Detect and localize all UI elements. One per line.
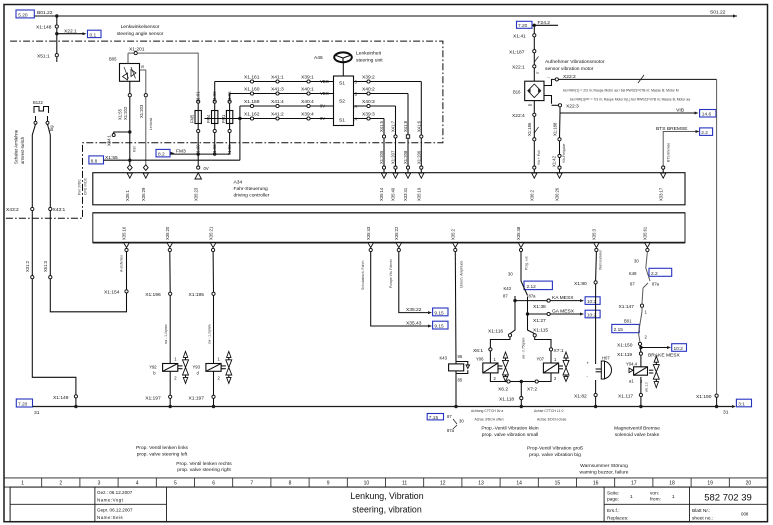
controller A34 lower box [93, 213, 685, 243]
wire X1:203 to pin X35:29 [146, 97, 153, 166]
svg-text:X1:150: X1:150 [617, 342, 633, 348]
relay contact K43 30/87/87a [503, 252, 552, 314]
valve Y93 proportional steering [189, 252, 232, 409]
svg-text:X1.118: X1.118 [499, 397, 514, 403]
svg-text:13: 13 [478, 481, 484, 487]
cab enclosure dash-dot boundary [4, 41, 443, 218]
svg-text:prop. valve steering left: prop. valve steering left [137, 451, 188, 457]
svg-text:1: 1 [630, 494, 633, 500]
node X1:115 [528, 314, 549, 337]
svg-text:6: 6 [212, 481, 215, 487]
svg-text:VDC: VDC [320, 91, 329, 96]
svg-text:7.20: 7.20 [518, 23, 528, 29]
svg-text:2.12: 2.12 [527, 284, 537, 290]
svg-text:Seite:: Seite: [607, 491, 619, 497]
pin X35:21 A34 bottom [208, 226, 216, 252]
svg-text:X1:203: X1:203 [139, 104, 144, 118]
svg-text:X40:4: X40:4 [301, 99, 314, 105]
svg-text:page:: page: [607, 498, 619, 503]
svg-text:B05: B05 [109, 57, 117, 62]
svg-text:ws - 0.75qmm: ws - 0.75qmm [522, 338, 526, 359]
node X51:1 [37, 53, 58, 62]
svg-text:CPU 0VDC: CPU 0VDC [84, 177, 88, 195]
svg-text:X1:38: X1:38 [533, 304, 546, 310]
wire pin X35:43 to sheet ref 9.15 [361, 252, 448, 330]
svg-text:X1.159: X1.159 [244, 99, 260, 105]
pin X35:3 A34 bottom [592, 228, 600, 251]
svg-text:Vib-Freigabe: Vib-Freigabe [562, 144, 566, 163]
svg-text:X1:115: X1:115 [533, 328, 548, 334]
svg-text:Blatt Nr.:: Blatt Nr.: [692, 508, 710, 514]
svg-text:aa: aa [528, 103, 532, 107]
wire B05 right pin to X1:203 [139, 70, 147, 118]
svg-text:12: 12 [440, 481, 446, 487]
svg-text:driving controller: driving controller [234, 193, 270, 199]
svg-text:4: 4 [136, 481, 139, 487]
svg-text:X35:1: X35:1 [125, 189, 130, 201]
svg-text:582 702 39: 582 702 39 [704, 492, 752, 503]
svg-text:von:: von: [650, 492, 659, 497]
svg-text:X1:147: X1:147 [619, 304, 635, 310]
pin X36:2 A34 top [530, 173, 538, 201]
svg-text:...: ... [547, 74, 551, 79]
relay contact K48 [629, 252, 672, 288]
svg-text:X1:190: X1:190 [696, 394, 712, 400]
pin labels Pwr/CPU 0V [78, 177, 88, 195]
svg-text:sw - 1.0qmm: sw - 1.0qmm [164, 324, 168, 344]
svg-text:X41:7: X41:7 [391, 120, 396, 132]
valve Y04.4 solenoid brake [618, 355, 659, 408]
svg-text:Replaces:: Replaces: [607, 516, 628, 522]
net row X1.162 steering signal [204, 111, 333, 121]
wire X31:2 down to X1:149 [32, 279, 77, 407]
svg-text:S2: S2 [339, 99, 345, 105]
wire B05 bottom pin X1:202 [118, 81, 132, 120]
svg-text:prop. valve vibration small: prop. valve vibration small [482, 432, 539, 438]
svg-text:X35:14: X35:14 [379, 187, 384, 201]
svg-text:X35:20: X35:20 [165, 226, 170, 240]
svg-text:X1:186: X1:186 [527, 122, 532, 136]
net GA MESX to sheet ref 10.2 [526, 308, 600, 323]
svg-text:X36:2: X36:2 [530, 189, 535, 201]
svg-text:S1: S1 [339, 118, 345, 124]
title block table [10, 487, 767, 522]
controller A34 upper box [93, 173, 685, 213]
svg-text:X35:43: X35:43 [366, 226, 371, 240]
pin X35:2 A34 bottom [451, 228, 459, 251]
svg-text:VIB: VIB [676, 108, 684, 114]
svg-text:prop. valve steering right: prop. valve steering right [177, 467, 231, 473]
wire B122 right to X43:1 [48, 124, 66, 213]
node X22:2 and net to long vertical [544, 74, 717, 86]
svg-text:2.2: 2.2 [651, 271, 658, 277]
svg-text:10:2: 10:2 [674, 346, 684, 352]
svg-text:B01: B01 [624, 319, 632, 324]
pin X35:23 A34 top [193, 173, 201, 201]
svg-text:85: 85 [458, 378, 463, 383]
svg-text:X1:116: X1:116 [488, 329, 503, 335]
svg-text:X1:42: X1:42 [552, 155, 557, 167]
caption solenoid valve brake [614, 426, 660, 439]
annotation cable notes B16 [563, 89, 690, 102]
node X41:8 / X1:208 [403, 120, 410, 172]
svg-text:Achse 3/DCH close: Achse 3/DCH close [537, 418, 567, 422]
svg-text:7: 7 [250, 481, 253, 487]
svg-text:X1:148: X1:148 [36, 25, 52, 31]
node X41:6 / X1:206 [416, 120, 423, 172]
node terminal X35:29 [143, 165, 148, 171]
svg-text:Prop-Ventil Vibration groß: Prop-Ventil Vibration groß [527, 446, 583, 452]
svg-text:X40:2: X40:2 [362, 86, 375, 92]
svg-text:18: 18 [669, 481, 675, 487]
svg-text:2.2: 2.2 [701, 130, 708, 136]
wire F24.2 down to B16 [509, 25, 539, 81]
svg-text:X1:01: X1:01 [196, 91, 201, 103]
svg-text:Achtung CTTCH 5v a: Achtung CTTCH 5v a [471, 409, 503, 413]
svg-text:Przg. out: Przg. out [525, 256, 529, 270]
svg-text:9.15: 9.15 [434, 310, 444, 316]
svg-text:Gepr. 06.12.2007: Gepr. 06.12.2007 [97, 508, 133, 513]
svg-text:Ers.f.:: Ers.f.: [607, 508, 620, 514]
caption prop valve vibration small [481, 426, 539, 439]
svg-text:X35:21: X35:21 [208, 226, 213, 240]
svg-text:30: 30 [459, 419, 464, 424]
caption sensor vibration motor [545, 59, 605, 72]
svg-text:30: 30 [508, 272, 513, 277]
svg-text:ws 1.0: ws 1.0 [645, 382, 649, 392]
sheet ref 5.20 [16, 10, 34, 18]
svg-text:Y06: Y06 [476, 356, 484, 361]
svg-text:Prop. Ventil lenken rechts: Prop. Ventil lenken rechts [176, 461, 232, 467]
svg-text:10: 10 [364, 481, 370, 487]
svg-text:X35:22: X35:22 [406, 307, 422, 313]
svg-text:87a: 87a [652, 281, 660, 286]
svg-text:Pwr 0VDC: Pwr 0VDC [78, 179, 82, 195]
svg-text:X1.161: X1.161 [244, 74, 260, 80]
node terminal X35:1 [127, 160, 132, 170]
svg-text:Lenkeinheit: Lenkeinheit [356, 51, 382, 57]
node junction X34:1 branch [107, 97, 137, 160]
svg-text:X1:41: X1:41 [513, 34, 526, 40]
svg-text:X6.2: X6.2 [498, 387, 508, 393]
svg-text:7.15: 7.15 [429, 415, 439, 421]
net row X39:3 to X41:5 [354, 111, 385, 135]
fuse FM5 [190, 91, 202, 156]
svg-text:8: 8 [289, 481, 292, 487]
pin X33:41 A34 top [403, 173, 411, 201]
svg-text:X41:3: X41:3 [271, 86, 284, 92]
net FM3 bus from sheet ref 8.2 [156, 148, 230, 157]
svg-text:X41:6: X41:6 [416, 120, 421, 132]
svg-text:warning buzzer, failure: warning buzzer, failure [580, 470, 629, 476]
svg-text:14.6: 14.6 [702, 112, 712, 118]
wire riser FM4 to row X1.161 [214, 82, 216, 101]
svg-text:X1:208: X1:208 [403, 150, 408, 164]
svg-text:X7:2: X7:2 [527, 387, 537, 393]
pin X35:48 A34 bottom [516, 226, 524, 252]
svg-text:X1:196: X1:196 [145, 292, 161, 298]
wire X22:3 branch down X1:188 / X1:42 [552, 113, 567, 173]
annotation achse notes [471, 409, 567, 422]
svg-text:BTS BREMSE: BTS BREMSE [656, 126, 688, 132]
svg-text:BTS Bremse: BTS Bremse [667, 143, 671, 162]
svg-text:X6:1: X6:1 [473, 348, 483, 354]
svg-text:X35:2: X35:2 [451, 228, 456, 240]
sensor B05 steering angle [109, 57, 145, 82]
svg-text:B: B [355, 92, 358, 97]
svg-text:X1:207: X1:207 [391, 150, 396, 164]
svg-text:sheet no.:: sheet no.: [692, 516, 713, 522]
net row X1.161 steering signal [215, 74, 334, 84]
svg-text:X1:201: X1:201 [129, 47, 145, 53]
svg-text:X1:188: X1:188 [553, 122, 558, 136]
net row X1.160 steering signal [230, 86, 334, 96]
svg-text:X1.162: X1.162 [244, 111, 260, 117]
svg-text:Achse CTTCH L1 0: Achse CTTCH L1 0 [534, 409, 564, 413]
caption prop valve vibration big [527, 446, 583, 459]
svg-text:X39:4: X39:4 [301, 111, 314, 117]
svg-text:X41:1: X41:1 [271, 74, 284, 80]
sheet ref 7.20 with net F24.2 [517, 20, 559, 29]
svg-text:7.20: 7.20 [18, 402, 28, 408]
node X1:118 to ground bus [499, 380, 523, 408]
svg-text:X1.117: X1.117 [618, 394, 633, 400]
wire X51:3 to X1:154 branch [50, 279, 126, 312]
wire pin X35:16 to X1:154 [104, 252, 128, 296]
svg-text:87: 87 [630, 281, 635, 286]
node X41:7 / X1:207 [391, 120, 398, 172]
node X1:116 [488, 301, 515, 337]
svg-text:14: 14 [516, 481, 522, 487]
svg-text:X35:16: X35:16 [122, 226, 127, 240]
sensor B16 vibration motor [513, 81, 544, 100]
valve Y06 prop vibration small [473, 337, 521, 393]
svg-text:0V: 0V [320, 104, 325, 109]
net KA MESX to sheet ref 10.2 [513, 295, 600, 310]
switch block S1/S2/S1 of A46 [334, 76, 358, 126]
svg-text:X1:154: X1:154 [104, 290, 120, 296]
svg-text:S: S [140, 65, 145, 68]
pin X35:19 A34 top [417, 173, 425, 201]
svg-text:X1:27: X1:27 [533, 318, 546, 324]
svg-text:Prop.-Ventil Vibration klein: Prop.-Ventil Vibration klein [481, 426, 539, 432]
pin X35:22 A34 bottom [394, 226, 402, 252]
svg-text:X34:1: X34:1 [107, 134, 112, 146]
svg-text:Aufnehmer Vibrationsmotor: Aufnehmer Vibrationsmotor [545, 59, 605, 65]
svg-text:BRAKE MESX: BRAKE MESX [648, 353, 681, 359]
svg-text:from:: from: [650, 497, 661, 503]
svg-text:X1:206: X1:206 [416, 150, 421, 164]
svg-text:Lenkrad: Lenkrad [149, 118, 153, 130]
svg-text:17: 17 [631, 481, 637, 487]
caption warning buzzer [580, 463, 629, 476]
svg-text:X35:61: X35:61 [643, 226, 648, 240]
svg-text:X39:1: X39:1 [301, 74, 314, 80]
svg-text:Lenkung, Vibration: Lenkung, Vibration [350, 491, 423, 501]
svg-text:11: 11 [402, 481, 407, 487]
buzzer H07 [574, 249, 612, 408]
svg-text:B122: B122 [33, 100, 43, 105]
svg-text:S1: S1 [339, 81, 345, 87]
svg-text:8.8: 8.8 [91, 158, 98, 164]
ground bus net 31 [16, 399, 751, 416]
svg-text:X39:3: X39:3 [362, 111, 375, 117]
wire riser 0V to row X1.159 [239, 106, 241, 119]
svg-text:X43:2: X43:2 [6, 207, 19, 213]
net B01.22 / S01.22 top supply bus [34, 10, 737, 18]
wire X1:201 to fuse FM5 [137, 53, 198, 100]
svg-text:X33:41: X33:41 [403, 187, 408, 201]
svg-text:8.2: 8.2 [158, 152, 165, 158]
svg-text:9.15: 9.15 [434, 324, 444, 330]
svg-text:Prop. Ventil lenken links: Prop. Ventil lenken links [136, 445, 188, 451]
svg-text:Schalter Armlehne: Schalter Armlehne [14, 129, 19, 164]
svg-text:X35:40: X35:40 [391, 187, 396, 201]
svg-text:X43:1: X43:1 [53, 207, 66, 213]
node X1:148 [36, 14, 59, 55]
switch B122 armrest [14, 100, 55, 164]
svg-text:X36:26: X36:26 [555, 187, 560, 201]
column scale row 1-20 [4, 478, 768, 487]
svg-text:31: 31 [723, 410, 729, 416]
svg-text:X35:3: X35:3 [592, 228, 597, 240]
svg-text:K30: K30 [133, 146, 137, 152]
svg-text:bei RAV(1) = 2/3 m; Raupe Moto: bei RAV(1) = 2/3 m; Raupe Motor aa / bei… [563, 89, 679, 93]
wire B122 left to X43:2 [6, 124, 36, 213]
svg-text:2: 2 [59, 481, 62, 487]
svg-text:86: 86 [458, 354, 463, 359]
relay coil K43 [440, 252, 470, 409]
svg-text:87: 87 [503, 294, 508, 299]
svg-text:X31:2: X31:2 [25, 260, 30, 272]
wire pin X35:22 to sheet ref 9.15 [389, 252, 448, 317]
svg-text:Schubabsch. Fahrh.: Schubabsch. Fahrh. [361, 260, 365, 290]
node X1:147 [619, 288, 644, 310]
svg-text:K43: K43 [440, 356, 448, 361]
svg-text:Name:Vogt: Name:Vogt [97, 498, 124, 503]
pin X35:29 A34 top [141, 173, 149, 201]
svg-text:big: big [49, 125, 54, 131]
caption Lenkwinkelsensor [117, 24, 164, 37]
svg-text:X41:2: X41:2 [271, 111, 284, 117]
svg-text:Magnetventil Bremse: Magnetventil Bremse [614, 426, 660, 432]
svg-text:X51:1: X51:1 [37, 53, 50, 59]
pin X35:20 A34 bottom [165, 226, 173, 252]
svg-text:B01.22: B01.22 [37, 10, 53, 16]
legend relay contact with sheet ref 7.15 [427, 414, 464, 434]
svg-text:X1:149: X1:149 [53, 395, 69, 401]
svg-text:GA MESX: GA MESX [552, 308, 575, 314]
wire riser FM1 to row X1.160 [229, 94, 231, 101]
svg-text:Achse 3/DCH offen: Achse 3/DCH offen [475, 418, 504, 422]
svg-text:FM5: FM5 [190, 114, 195, 123]
net BRAKE MESX to sheet ref 10.2 [617, 344, 687, 359]
svg-text:Warnsummer Störung: Warnsummer Störung [580, 463, 628, 469]
pin X35:43 A34 bottom [366, 226, 374, 252]
svg-text:0V: 0V [204, 166, 209, 171]
svg-text:Umsch. Amplitude: Umsch. Amplitude [460, 261, 464, 288]
net X1:55 0V line from sheet ref 8.8 [89, 155, 240, 165]
svg-text:bei RW(1)PF = 7/3 m; Raupe Mot: bei RW(1)PF = 7/3 m; Raupe Motor b(L) be… [570, 98, 690, 102]
svg-text:Y04.4: Y04.4 [626, 362, 638, 367]
svg-text:5: 5 [174, 481, 177, 487]
svg-text:X33:17: X33:17 [658, 187, 663, 201]
svg-text:16: 16 [593, 481, 599, 487]
svg-text:S01.22: S01.22 [710, 10, 726, 16]
svg-text:Vib + Poti: Vib + Poti [537, 150, 541, 165]
svg-text:K48: K48 [629, 271, 637, 276]
svg-text:X1:80: X1:80 [574, 281, 587, 287]
svg-text:31: 31 [34, 410, 40, 416]
svg-text:X35:48: X35:48 [516, 226, 521, 240]
svg-text:iv: iv [537, 71, 540, 75]
net row X40:3 to X41:7 [354, 99, 396, 135]
fuse FM4 [206, 91, 218, 156]
svg-text:X40:1: X40:1 [301, 86, 314, 92]
svg-text:Y92: Y92 [149, 365, 157, 370]
svg-text:X1.160: X1.160 [244, 86, 260, 92]
svg-text:0V: 0V [320, 116, 325, 121]
svg-text:H07: H07 [602, 356, 610, 361]
svg-text:Fahr-Steuerung: Fahr-Steuerung [234, 186, 269, 192]
svg-text:solenoid valve brake: solenoid valve brake [615, 432, 660, 438]
svg-text:20: 20 [746, 481, 752, 487]
svg-text:steering, vibration: steering, vibration [352, 505, 422, 515]
svg-text:Y07: Y07 [537, 356, 545, 361]
svg-text:X1:197: X1:197 [145, 395, 161, 401]
svg-text:sw - 1.0qmm: sw - 1.0qmm [208, 324, 212, 344]
node X22:4 under B16 [512, 101, 541, 173]
net row X40:2 to X41:8 [354, 86, 409, 135]
svg-text:prop. valve vibration big: prop. valve vibration big [529, 452, 581, 458]
svg-text:steering unit: steering unit [356, 58, 383, 64]
svg-text:15: 15 [555, 481, 561, 487]
wire FM5 bottom to pin X35:23 with 0V node [197, 154, 209, 171]
pin X35:1 A34 top [125, 173, 133, 201]
svg-text:X22:4: X22:4 [512, 113, 525, 119]
node X22:3 and net VIB to sheet ref 14.6 [544, 96, 716, 118]
svg-text:X1:55: X1:55 [118, 108, 123, 120]
svg-text:A: A [355, 104, 358, 109]
svg-text:X35:22: X35:22 [394, 226, 399, 240]
svg-text:A: A [355, 117, 358, 122]
svg-text:A34: A34 [234, 180, 243, 186]
svg-text:3: 3 [98, 481, 101, 487]
pin X33:17 A34 top [658, 173, 666, 201]
valve Y07 prop vibration big [521, 337, 569, 393]
node X1:201 [128, 47, 145, 64]
svg-text:X35.43: X35.43 [406, 321, 422, 327]
svg-text:steering angle sensor: steering angle sensor [117, 31, 164, 37]
svg-text:X7:1: X7:1 [554, 348, 564, 354]
svg-text:87: 87 [447, 414, 452, 419]
svg-text:a1: a1 [629, 379, 634, 384]
wire 0V riser to row X1.162 [238, 117, 241, 160]
caption prop valve steering right [176, 461, 232, 473]
svg-text:K43: K43 [504, 286, 512, 291]
svg-text:X1:205: X1:205 [379, 150, 384, 164]
pin X35:40 A34 top [391, 173, 399, 201]
svg-text:A46: A46 [314, 55, 323, 61]
net BTS BREMSE to sheet ref 2.2 [656, 126, 713, 173]
svg-text:2.15: 2.15 [614, 327, 624, 333]
svg-text:1: 1 [672, 494, 675, 500]
svg-text:B16: B16 [513, 90, 521, 95]
svg-text:Warnsummer: Warnsummer [599, 249, 603, 270]
svg-text:Pumpe Vib. Fahren: Pumpe Vib. Fahren [389, 259, 393, 288]
svg-text:X35:29: X35:29 [141, 187, 146, 201]
svg-text:Gez.: 06.12.2007: Gez.: 06.12.2007 [97, 490, 133, 495]
